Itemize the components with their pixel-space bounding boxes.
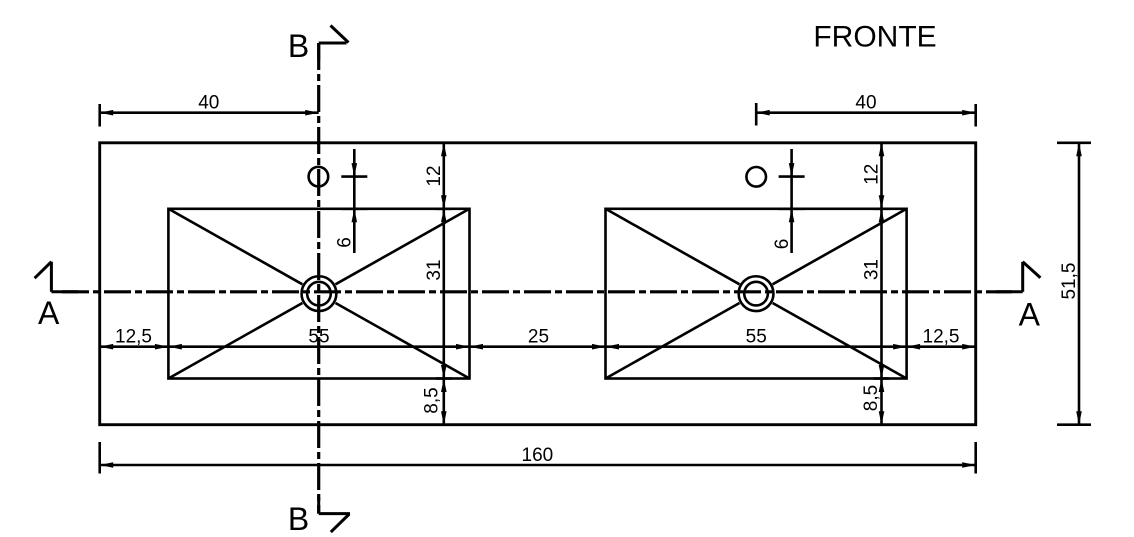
right drain inner circle — [744, 282, 768, 306]
left basin diagonal 2 — [336, 209, 470, 285]
dimension 160: extension ticks — [98, 442, 101, 474]
dimension 51,5: arrows — [1076, 143, 1082, 157]
svg-text:160: 160 — [522, 445, 554, 466]
dimension 40 top-right: arrows — [756, 110, 770, 116]
right stack arrows — [879, 143, 885, 157]
dimension 51,5: extension ticks — [1057, 142, 1091, 145]
svg-text:12,5: 12,5 — [115, 327, 152, 348]
dimension 6 right: arrows — [789, 163, 795, 177]
svg-text:25: 25 — [528, 327, 549, 348]
dimension 40 top-right: extension ticks — [755, 103, 758, 126]
svg-text:55: 55 — [746, 327, 767, 348]
svg-text:FRONTE: FRONTE — [813, 21, 936, 54]
dimension 6 left: arrows — [352, 163, 358, 177]
dimension 160: arrows — [100, 462, 114, 468]
svg-text:A: A — [38, 295, 60, 331]
main outline (vanity top 160x51,5) — [100, 143, 976, 425]
section line A-A right flag — [996, 262, 1040, 292]
svg-text:40: 40 — [855, 93, 876, 114]
horizontal row arrows — [100, 344, 114, 350]
svg-text:A: A — [1019, 297, 1041, 333]
svg-text:51,5: 51,5 — [1059, 263, 1080, 300]
dimension 51,5: line — [1078, 143, 1081, 425]
horizontal dimension row line (12,5/55/25/55/12,5) — [100, 345, 976, 348]
svg-text:8,5: 8,5 — [861, 385, 882, 411]
right drain outer circle — [739, 276, 774, 311]
dimension 6 left: line — [353, 149, 356, 253]
section line B-B centerline — [317, 43, 320, 514]
left drain inner circle — [307, 282, 331, 306]
dimension 6 left: ticks — [341, 175, 367, 178]
dimension 40 top-left: line — [100, 111, 319, 114]
svg-text:B: B — [288, 501, 309, 537]
svg-text:40: 40 — [198, 93, 219, 114]
right faucet hole — [746, 167, 766, 187]
svg-text:12,5: 12,5 — [923, 327, 960, 348]
svg-text:6: 6 — [772, 239, 793, 250]
left basin rectangle — [168, 209, 469, 379]
svg-text:31: 31 — [862, 259, 883, 280]
left stack ticks — [436, 208, 452, 211]
right vertical dimension stack line (12/31/8,5) — [880, 143, 883, 425]
dimension 40 top-right: line — [756, 111, 976, 114]
left vertical dimension stack line (12/31/8,5) — [442, 143, 445, 425]
svg-text:55: 55 — [308, 327, 329, 348]
svg-text:12: 12 — [862, 164, 883, 185]
right basin diagonal 2 — [773, 209, 907, 285]
section line A-A left flag — [35, 262, 78, 292]
right stack ticks — [874, 208, 890, 211]
dimension 6 right: line — [790, 149, 793, 253]
left drain outer circle — [302, 276, 337, 311]
svg-text:8,5: 8,5 — [422, 387, 443, 413]
dimension 40 top-left: arrows — [100, 110, 114, 116]
right basin diagonal 1 — [606, 209, 740, 285]
svg-text:B: B — [288, 28, 309, 64]
svg-text:6: 6 — [335, 237, 356, 248]
left basin diagonal 1 — [168, 209, 302, 285]
section line A-A centerline — [62, 290, 1012, 293]
right basin rectangle — [606, 209, 907, 379]
dimension 6 right: ticks — [779, 175, 805, 178]
section line B-B bottom flag — [319, 497, 350, 532]
left stack arrows — [441, 143, 447, 157]
section line B-B top flag — [319, 26, 349, 61]
svg-text:12: 12 — [424, 165, 445, 186]
dimension 160: line — [100, 464, 976, 467]
dimension 40 top-left: extension tick — [98, 104, 101, 127]
svg-text:31: 31 — [424, 259, 445, 280]
left faucet hole — [309, 167, 329, 187]
